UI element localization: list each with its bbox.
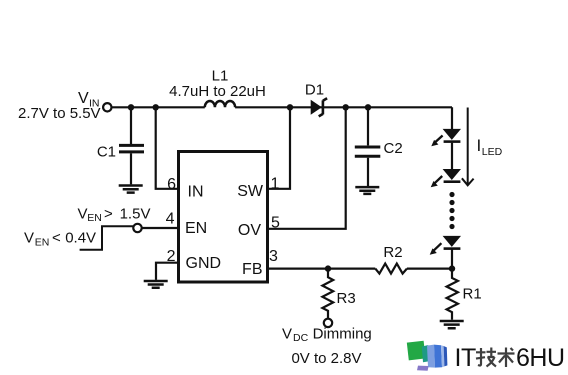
LED D4 triangle (443, 236, 461, 247)
svg-text:4.7uH to 22uH: 4.7uH to 22uH (169, 83, 266, 100)
junction node VIN/C1 (128, 104, 134, 110)
LED arrow 1 (435, 136, 443, 143)
svg-text:<: < (52, 230, 61, 247)
ground C1 (119, 186, 143, 193)
svg-text:I: I (477, 136, 482, 155)
wire SW (pin 1) (268, 107, 290, 189)
terminal VDC (324, 319, 332, 327)
svg-text:SW: SW (237, 183, 264, 200)
wire EN (pin 4) (142, 227, 179, 229)
svg-text:V: V (282, 326, 292, 343)
svg-text:5: 5 (271, 214, 280, 231)
dotted line (449, 192, 454, 197)
VEN step waveform (80, 226, 134, 249)
wire GND (pin 2) (156, 263, 179, 280)
LED D3 bar (444, 180, 461, 183)
capacitor C1 (119, 145, 144, 152)
wire OV (pin 5) (268, 107, 346, 229)
svg-text:FB: FB (242, 261, 262, 278)
wire C1 leads (130, 107, 132, 184)
op IC box U1 (179, 152, 268, 283)
svg-text:IT: IT (455, 344, 476, 372)
ILED arrow line (462, 108, 474, 186)
junction node IN drop (153, 104, 159, 110)
svg-text:DC: DC (293, 332, 309, 344)
svg-text:>: > (104, 205, 113, 222)
watermark glyph ji (476, 348, 496, 367)
svg-text:3: 3 (269, 248, 278, 265)
svg-text:0.4V: 0.4V (65, 230, 96, 247)
svg-text:1.5V: 1.5V (120, 205, 151, 222)
resistor R1 (447, 269, 458, 320)
resistor R3 (322, 269, 333, 319)
watermark logo (407, 341, 448, 371)
svg-text:R3: R3 (337, 290, 356, 307)
junction node C2 (365, 104, 371, 110)
svg-text:V: V (24, 230, 34, 247)
svg-text:1: 1 (271, 175, 280, 192)
ground R1 (440, 321, 464, 328)
svg-text:2.7V to 5.5V: 2.7V to 5.5V (18, 105, 101, 122)
svg-text:D1: D1 (305, 82, 324, 99)
junction node FB/R3 (325, 265, 331, 271)
svg-text:EN: EN (87, 212, 102, 224)
terminal EN (133, 224, 141, 232)
svg-text:4: 4 (166, 210, 175, 227)
svg-text:6: 6 (167, 176, 176, 193)
svg-text:C2: C2 (384, 140, 403, 157)
svg-text:IN: IN (188, 183, 204, 200)
LED D2 triangle (443, 129, 461, 140)
svg-text:EN: EN (185, 220, 207, 237)
svg-text:EN: EN (35, 236, 50, 248)
junction node OV (343, 104, 349, 110)
svg-text:V: V (78, 205, 88, 222)
wire LED chain (451, 107, 453, 268)
svg-text:0V to 2.8V: 0V to 2.8V (291, 350, 361, 367)
LED D3 triangle (443, 169, 461, 180)
junction node LED/R1 (449, 265, 455, 271)
diode D1 cathode bar (319, 98, 327, 116)
svg-text:OV: OV (238, 222, 261, 239)
junction node SW (287, 104, 293, 110)
capacitor C2 (355, 147, 381, 156)
watermark glyph shu (498, 348, 515, 368)
ground C2 (355, 187, 379, 194)
LED D2 bar (444, 140, 461, 143)
LED arrow 3 (433, 243, 441, 251)
LED D4 bar (444, 247, 461, 250)
svg-text:LED: LED (482, 146, 503, 158)
ground GND pin (144, 281, 168, 288)
wire C2 leads (367, 107, 369, 186)
svg-text:GND: GND (186, 255, 222, 272)
svg-text:C1: C1 (97, 144, 116, 161)
svg-text:R1: R1 (463, 286, 482, 303)
wire FB (pin 3) (268, 268, 452, 270)
LED D4 arrow head (430, 248, 437, 254)
wire top rail (112, 106, 452, 108)
svg-text:2: 2 (167, 248, 176, 265)
resistor R2 (375, 264, 407, 274)
svg-text:R2: R2 (383, 244, 402, 261)
diode D1 triangle (311, 100, 322, 115)
LED D2 arrow head (431, 140, 438, 146)
inductor L1 (205, 101, 235, 107)
svg-text:Dimming: Dimming (313, 326, 372, 343)
LED arrow 2 (434, 176, 442, 183)
svg-text:6HU: 6HU (516, 344, 565, 372)
LED D3 arrow head (431, 181, 438, 187)
terminal VIN (103, 103, 111, 111)
wire IN drop (pin 6) (156, 107, 179, 189)
